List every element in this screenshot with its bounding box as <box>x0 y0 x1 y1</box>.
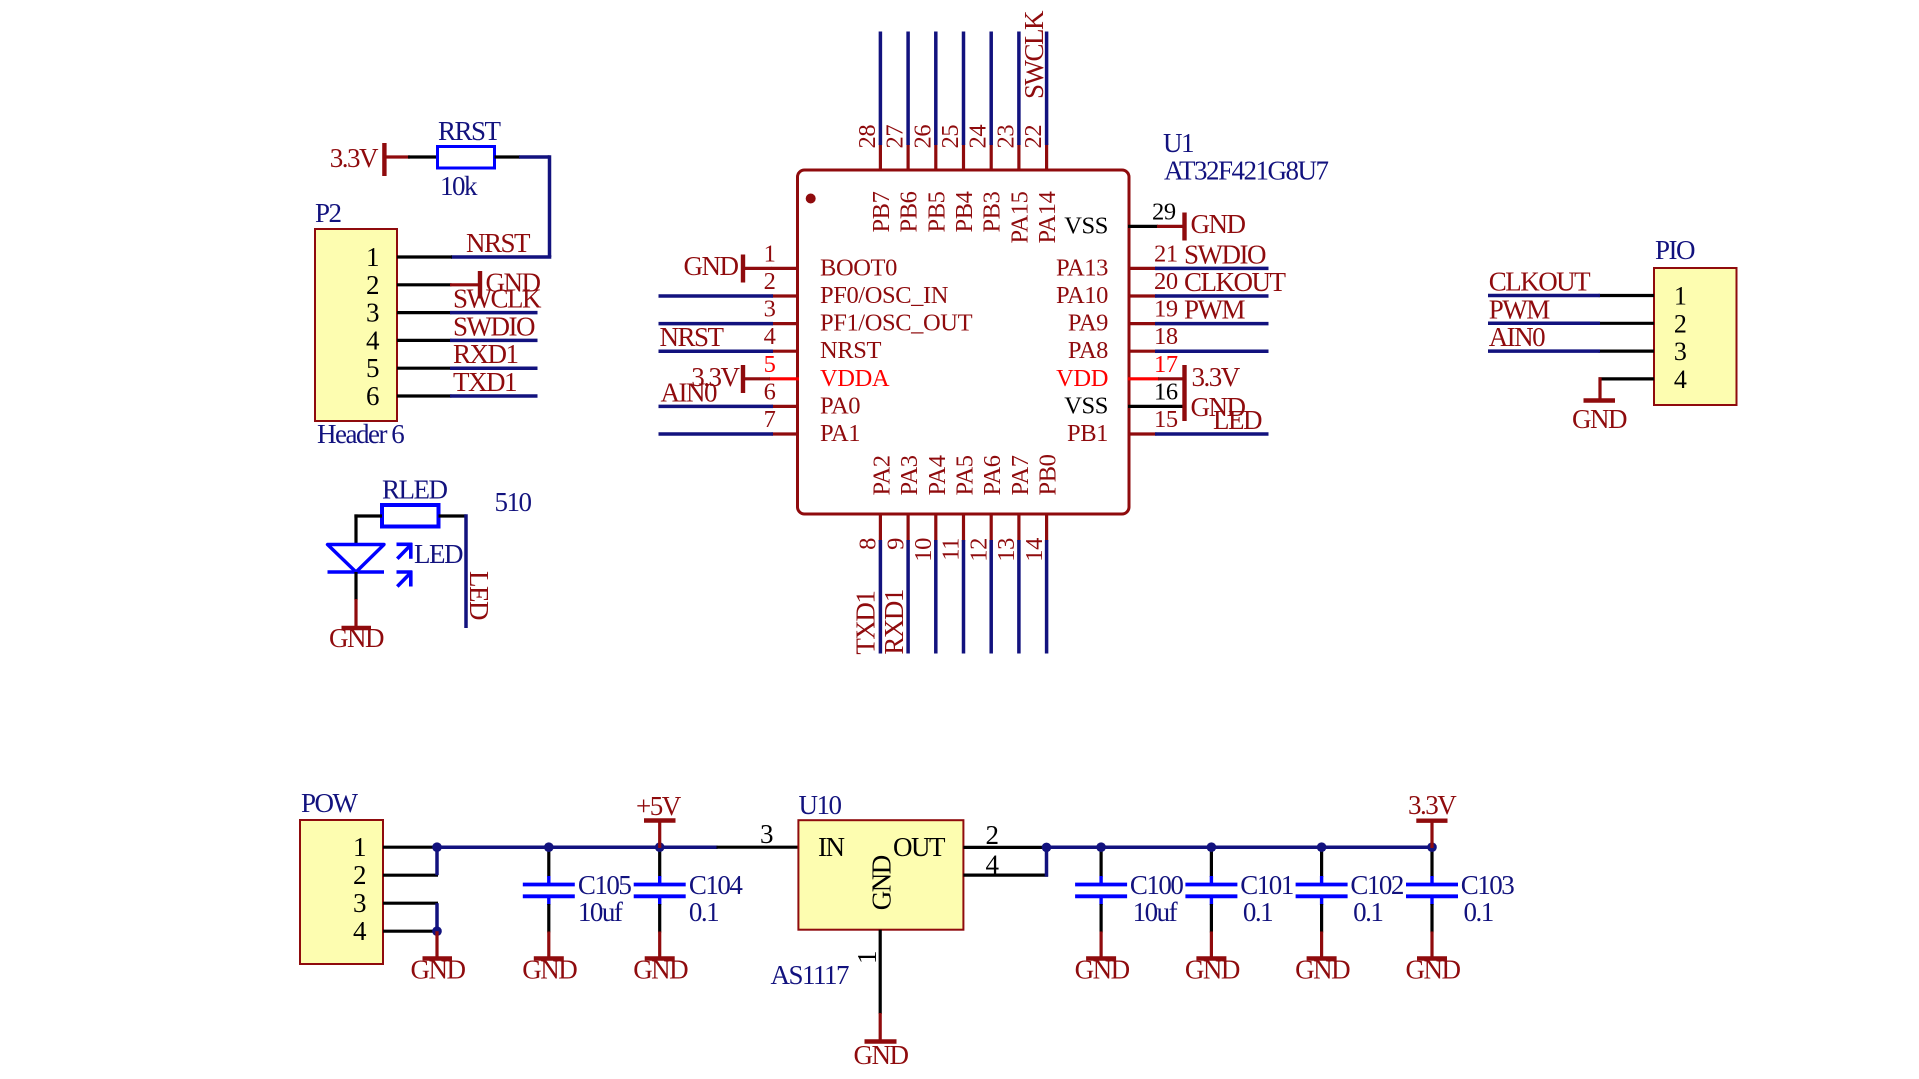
svg-text:3.3V: 3.3V <box>1192 362 1241 392</box>
svg-text:BOOT0: BOOT0 <box>820 254 897 281</box>
capacitor C101 <box>1185 846 1292 933</box>
svg-text:C100: C100 <box>1130 870 1184 900</box>
net label SWDIO (U1) <box>1184 239 1266 269</box>
svg-text:GND: GND <box>684 251 739 281</box>
U10 designator AS1117 <box>771 960 850 990</box>
svg-text:GND: GND <box>1572 404 1627 434</box>
U1 pin 2 stub+wire <box>659 294 800 297</box>
svg-text:PB0: PB0 <box>1035 454 1062 495</box>
svg-text:C101: C101 <box>1240 870 1293 900</box>
net label NRST <box>466 228 531 258</box>
power port GND (C100) <box>1075 932 1130 985</box>
svg-text:LED: LED <box>1213 405 1262 435</box>
svg-text:+5V: +5V <box>636 791 682 821</box>
U1 pin 17 stub <box>1128 377 1159 380</box>
U1 pin 18 stub+wire <box>1128 350 1269 353</box>
svg-text:4: 4 <box>366 325 380 355</box>
svg-text:2: 2 <box>353 860 366 890</box>
svg-text:27: 27 <box>882 125 909 149</box>
svg-text:0.1: 0.1 <box>1243 897 1272 927</box>
svg-text:PB4: PB4 <box>951 191 978 232</box>
svg-text:6: 6 <box>366 381 379 411</box>
svg-text:LED: LED <box>464 571 494 620</box>
svg-text:14: 14 <box>1021 538 1048 562</box>
svg-text:7: 7 <box>764 406 776 433</box>
svg-text:C102: C102 <box>1350 870 1404 900</box>
power port GND (P2 pin 2) <box>450 268 540 299</box>
svg-text:PA13: PA13 <box>1056 254 1108 281</box>
svg-text:PA5: PA5 <box>952 455 979 495</box>
wire (RLED to LED net corner) <box>439 514 467 517</box>
svg-text:GND: GND <box>1406 955 1461 985</box>
POW pin numbers 1-4 <box>353 832 367 946</box>
svg-text:23: 23 <box>992 125 1019 149</box>
svg-text:2: 2 <box>986 820 999 850</box>
P2 pin 1 wire <box>397 255 452 258</box>
svg-text:POW: POW <box>301 788 359 818</box>
svg-text:10uf: 10uf <box>1133 897 1178 927</box>
U1 pin 29 number <box>1152 198 1176 225</box>
svg-text:PA14: PA14 <box>1034 191 1061 243</box>
svg-text:13: 13 <box>993 538 1020 562</box>
junction (C102) <box>1317 842 1327 852</box>
connector POW body <box>300 788 383 964</box>
svg-text:AIN0: AIN0 <box>1489 322 1545 352</box>
svg-text:PIO: PIO <box>1655 235 1695 265</box>
wire NRST horizontal <box>451 255 551 259</box>
svg-text:RLED: RLED <box>382 475 447 505</box>
svg-text:SWCLK: SWCLK <box>1019 10 1049 99</box>
svg-text:11: 11 <box>938 538 965 561</box>
svg-text:6: 6 <box>764 378 776 405</box>
svg-text:RXD1: RXD1 <box>453 339 518 369</box>
svg-text:2: 2 <box>366 270 379 300</box>
svg-text:C104: C104 <box>689 870 744 900</box>
svg-text:0.1: 0.1 <box>1464 897 1493 927</box>
op-amp U1 body AT32F421G8U7 <box>798 128 1329 514</box>
P2 pin numbers 1-6 <box>366 242 380 411</box>
net label TXD1 <box>453 367 516 397</box>
svg-text:20: 20 <box>1154 268 1178 295</box>
svg-text:LED: LED <box>414 539 463 569</box>
svg-text:VDD: VDD <box>1056 365 1108 392</box>
wire (rail to U10 IN) <box>717 846 799 849</box>
svg-text:1: 1 <box>1674 282 1687 311</box>
U10 pin 2 number <box>986 820 999 850</box>
svg-text:17: 17 <box>1154 351 1178 378</box>
LED D1 symbol <box>328 539 463 587</box>
capacitor C105 <box>523 846 632 933</box>
svg-text:GND: GND <box>522 955 577 985</box>
net label TXD1 (vertical) <box>850 592 880 655</box>
svg-text:GND: GND <box>411 955 466 985</box>
svg-text:16: 16 <box>1154 378 1178 405</box>
PIO pin 1 wire <box>1488 294 1654 297</box>
svg-text:4: 4 <box>1674 365 1687 394</box>
svg-text:PA3: PA3 <box>896 455 923 495</box>
svg-text:PA15: PA15 <box>1006 191 1033 243</box>
svg-text:RRST: RRST <box>438 116 502 146</box>
svg-text:PB3: PB3 <box>979 191 1006 232</box>
P2 pin 4 wire <box>397 339 538 342</box>
svg-text:24: 24 <box>965 125 992 149</box>
power port GND (U1 pin 16) <box>1185 392 1246 422</box>
svg-text:19: 19 <box>1154 296 1178 323</box>
P2 pin 5 wire <box>397 367 538 370</box>
regulator U10 body <box>798 790 963 930</box>
U1 pin 6 stub+wire <box>659 405 800 408</box>
wire (RRST to NRST corner) <box>495 155 550 158</box>
svg-text:12: 12 <box>965 538 992 562</box>
connector PIO body <box>1654 235 1737 405</box>
svg-text:26: 26 <box>909 125 936 149</box>
svg-text:PA10: PA10 <box>1056 282 1108 309</box>
U1 pin 5 stub <box>769 377 799 380</box>
U10 pin 4 number <box>986 850 1000 880</box>
net label NRST (U1) <box>660 322 725 352</box>
svg-text:PA4: PA4 <box>924 455 951 495</box>
svg-text:1: 1 <box>852 952 882 964</box>
svg-text:10k: 10k <box>440 171 478 201</box>
svg-text:U1: U1 <box>1163 128 1193 158</box>
resistor RLED <box>382 475 532 527</box>
svg-text:5: 5 <box>764 351 776 378</box>
junction (C100) <box>1096 842 1106 852</box>
U10 pin 3 number <box>760 819 773 849</box>
svg-text:IN: IN <box>818 832 844 862</box>
power port GND (U1 pin 1) <box>684 251 773 283</box>
svg-text:CLKOUT: CLKOUT <box>1489 267 1591 297</box>
net label AIN0 (U1) <box>661 377 717 407</box>
U10 pin 1 number (vertical) <box>852 952 882 964</box>
net label PWM (U1) <box>1184 295 1246 325</box>
U1 pin 15 stub+wire <box>1128 432 1269 435</box>
svg-text:PB7: PB7 <box>868 191 895 232</box>
svg-text:P2: P2 <box>315 198 342 228</box>
net label SWDIO <box>453 311 535 341</box>
U1 top pin stubs <box>880 144 1046 172</box>
power port 3.3V (U1 pin 17) <box>1158 362 1241 393</box>
svg-text:8: 8 <box>855 538 882 550</box>
svg-text:2: 2 <box>764 268 776 295</box>
svg-text:3: 3 <box>1674 337 1687 366</box>
wire (node to RLED) <box>354 514 382 545</box>
power port 3.3V (rail) <box>1408 790 1457 848</box>
svg-text:SWDIO: SWDIO <box>1184 239 1266 269</box>
P2 pin 3 wire <box>397 311 538 314</box>
power port GND (U1 pin 29) <box>1157 209 1245 241</box>
svg-text:3: 3 <box>353 888 366 918</box>
power port +5V <box>636 791 682 848</box>
net label AIN0 (PIO) <box>1489 322 1545 352</box>
net label LED (U1) <box>1213 405 1262 435</box>
connector P2 body <box>315 198 404 449</box>
POW pin wires <box>383 847 438 931</box>
junction (POW pin4) <box>432 926 442 936</box>
wire (LED cathode down) <box>354 572 357 600</box>
net label PWM (PIO) <box>1489 294 1551 324</box>
svg-text:AS1117: AS1117 <box>771 960 850 990</box>
U1 top pin names <box>868 191 1061 243</box>
U1 pin 29 wire VSS <box>1128 225 1158 228</box>
power port GND (POW) <box>411 931 466 984</box>
svg-text:GND: GND <box>329 623 384 653</box>
svg-text:GND: GND <box>1185 955 1240 985</box>
svg-text:4: 4 <box>986 850 1000 880</box>
capacitor C104 <box>634 846 744 933</box>
svg-text:22: 22 <box>1020 125 1047 149</box>
net label LED (vertical) <box>464 571 494 620</box>
net label RXD1 (vertical) <box>879 590 909 655</box>
U1 left pin numbers 1-7 <box>764 240 776 433</box>
wire 3.3V rail <box>1047 845 1433 849</box>
U1 top pin numbers <box>854 125 1047 149</box>
svg-text:3.3V: 3.3V <box>330 143 379 173</box>
svg-text:SWDIO: SWDIO <box>453 311 535 341</box>
power port 3.3V (U1 pin 5) <box>691 362 770 393</box>
U1 pin 3 stub+wire <box>659 322 800 325</box>
svg-text:29: 29 <box>1152 198 1176 225</box>
power port GND (C101) <box>1185 932 1240 985</box>
PIO pin numbers 1-4 <box>1674 282 1687 394</box>
PIO pin 4 wire <box>1599 377 1655 380</box>
wire (pin4 to pin2 join) <box>1045 847 1049 876</box>
svg-text:9: 9 <box>882 538 909 550</box>
wire LED net vertical <box>464 514 468 628</box>
power port GND (U10) <box>854 1013 909 1070</box>
U1 right pin numbers <box>1154 240 1178 433</box>
capacitor C103 <box>1406 846 1514 933</box>
wire (3.3V to RRST) <box>408 155 438 158</box>
svg-text:NRST: NRST <box>660 322 725 352</box>
svg-text:2: 2 <box>1674 309 1687 338</box>
svg-text:PF1/OSC_OUT: PF1/OSC_OUT <box>820 310 973 337</box>
resistor RRST <box>438 116 502 201</box>
svg-text:PA8: PA8 <box>1068 337 1108 364</box>
svg-text:GND: GND <box>867 855 897 910</box>
svg-text:PF0/OSC_IN: PF0/OSC_IN <box>820 282 949 309</box>
svg-text:C103: C103 <box>1461 870 1515 900</box>
svg-text:TXD1: TXD1 <box>850 592 880 655</box>
svg-text:3: 3 <box>366 298 379 328</box>
svg-text:4: 4 <box>353 916 367 946</box>
net label SWCLK (vertical) <box>1019 10 1049 99</box>
junction (POW pin1) <box>432 842 442 852</box>
svg-text:PA1: PA1 <box>820 420 860 447</box>
svg-text:Header 6: Header 6 <box>317 419 404 449</box>
U10 pin 1 wire GND <box>879 930 882 1014</box>
svg-text:28: 28 <box>854 125 881 149</box>
svg-text:21: 21 <box>1154 240 1178 267</box>
svg-text:3.3V: 3.3V <box>1408 790 1457 820</box>
net label SWCLK <box>453 284 542 314</box>
svg-text:0.1: 0.1 <box>1353 897 1382 927</box>
power port 3.3V (to RRST) <box>330 143 410 176</box>
svg-text:OUT: OUT <box>893 832 946 862</box>
svg-text:PA0: PA0 <box>820 392 860 419</box>
svg-text:4: 4 <box>764 323 776 350</box>
wire (POW 3-4 join) <box>435 903 439 931</box>
PIO pin 3 wire <box>1488 350 1654 353</box>
U1 bottom pin numbers <box>855 538 1048 562</box>
svg-text:GND: GND <box>854 1040 909 1070</box>
U1 pin 16 wire VSS <box>1128 405 1185 408</box>
U1 pin 7 stub+wire <box>659 432 800 435</box>
svg-text:10: 10 <box>910 538 937 562</box>
wire +5V rail <box>437 845 718 849</box>
svg-text:SWCLK: SWCLK <box>453 284 542 314</box>
svg-text:GND: GND <box>1075 955 1130 985</box>
U10 pin 2 wire <box>963 846 1048 849</box>
U1 bottom pin stubs <box>880 513 1046 542</box>
power port GND (LED) <box>329 599 384 653</box>
svg-text:VDDA: VDDA <box>820 365 890 392</box>
capacitor C102 <box>1296 846 1404 933</box>
svg-text:GND: GND <box>1295 955 1350 985</box>
svg-text:VSS: VSS <box>1064 392 1108 419</box>
power port GND (C103) <box>1406 932 1461 985</box>
svg-text:3: 3 <box>760 819 773 849</box>
PIO pin 2 wire <box>1488 322 1654 325</box>
svg-text:1: 1 <box>366 242 378 272</box>
wire NRST vertical <box>548 155 552 257</box>
U1 pin 1 stub <box>772 267 800 270</box>
svg-text:3: 3 <box>764 296 776 323</box>
svg-text:CLKOUT: CLKOUT <box>1184 267 1286 297</box>
P2 pin 2 wire <box>397 283 452 286</box>
U1 pin 21 stub+wire <box>1128 267 1269 270</box>
svg-text:10uf: 10uf <box>578 897 623 927</box>
U1 top pin wires <box>880 32 1046 146</box>
svg-text:18: 18 <box>1154 323 1178 350</box>
junction (C105) <box>544 842 554 852</box>
svg-text:U10: U10 <box>799 790 842 820</box>
svg-text:GND: GND <box>633 955 688 985</box>
capacitor C100 <box>1075 846 1183 933</box>
svg-text:PB5: PB5 <box>923 191 950 232</box>
svg-text:C105: C105 <box>578 870 632 900</box>
U1 pin 20 stub+wire <box>1128 294 1269 297</box>
svg-text:PWM: PWM <box>1184 295 1246 325</box>
svg-text:VSS: VSS <box>1064 212 1108 239</box>
svg-text:NRST: NRST <box>466 228 531 258</box>
net label CLKOUT (U1) <box>1184 267 1286 297</box>
svg-text:510: 510 <box>495 487 532 517</box>
U10 pin 4 wire <box>963 873 1048 876</box>
junction (C103) <box>1427 842 1437 852</box>
U1 bottom pin wires <box>880 540 1046 654</box>
svg-text:RXD1: RXD1 <box>879 590 909 655</box>
junction (C104) <box>655 842 665 852</box>
power port GND (C105) <box>522 932 577 985</box>
P2 pin 6 wire <box>397 394 538 397</box>
svg-text:1: 1 <box>764 240 776 267</box>
svg-text:NRST: NRST <box>820 337 881 364</box>
U1 pin 4 stub+wire <box>659 350 800 353</box>
net label CLKOUT (PIO) <box>1489 267 1591 297</box>
U1 bottom pin names <box>868 454 1061 495</box>
svg-text:PB6: PB6 <box>896 191 923 232</box>
svg-text:1: 1 <box>353 832 365 862</box>
U1 right pin names <box>1056 254 1108 447</box>
U1 pin 19 stub+wire <box>1128 322 1269 325</box>
svg-text:PA9: PA9 <box>1068 310 1108 337</box>
wire (POW 1-2 join) <box>435 847 439 875</box>
power port GND (C102) <box>1295 932 1350 985</box>
U1 left pin names <box>820 254 973 447</box>
svg-text:TXD1: TXD1 <box>453 367 516 397</box>
svg-text:GND: GND <box>1191 209 1246 239</box>
svg-text:PB1: PB1 <box>1067 420 1108 447</box>
svg-text:5: 5 <box>366 353 379 383</box>
svg-text:0.1: 0.1 <box>689 897 718 927</box>
svg-text:PA7: PA7 <box>1007 455 1034 495</box>
svg-text:PA6: PA6 <box>979 455 1006 495</box>
junction (U10 out) <box>1042 843 1052 853</box>
net label RXD1 <box>453 339 518 369</box>
power port GND (PIO) <box>1572 377 1627 434</box>
svg-text:AIN0: AIN0 <box>661 377 717 407</box>
junction (C101) <box>1207 842 1217 852</box>
svg-text:AT32F421G8U7: AT32F421G8U7 <box>1164 156 1329 186</box>
power port GND (C104) <box>633 932 688 985</box>
svg-text:25: 25 <box>937 125 964 149</box>
svg-text:15: 15 <box>1154 406 1178 433</box>
svg-text:PWM: PWM <box>1489 294 1551 324</box>
U1 pin 29 name VSS <box>1064 212 1108 239</box>
svg-text:PA2: PA2 <box>868 455 895 495</box>
